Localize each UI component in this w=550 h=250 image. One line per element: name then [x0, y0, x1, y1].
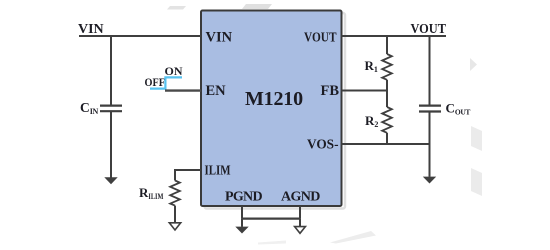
svg-text:EN: EN: [206, 83, 227, 99]
ground (VIN side, filled arrow): [104, 177, 117, 184]
wire AGND to ground: [299, 219, 301, 227]
resistor RILIM: [170, 181, 180, 206]
wire AGND stub: [299, 206, 301, 219]
svg-text:VOS-: VOS-: [307, 138, 339, 153]
watermark fragment right blob 2: [471, 168, 482, 196]
capacitor CIN: [100, 106, 122, 112]
svg-text:FB: FB: [320, 83, 339, 99]
svg-text:M1210: M1210: [245, 88, 303, 110]
svg-text:VIN: VIN: [78, 22, 104, 37]
wire PGND to ground: [241, 219, 243, 227]
wire R2 bottom to VOS- wire: [386, 133, 388, 144]
wire RILIM to ground: [174, 206, 176, 223]
wire VOS- node to ground: [429, 144, 431, 177]
wire EN to chip: [165, 89, 201, 91]
wire VOS- from chip to ground branch: [342, 143, 430, 145]
wire R1 bottom to FB node: [386, 80, 388, 91]
svg-text:OFF: OFF: [145, 77, 166, 89]
ground (output side, filled arrow): [423, 177, 436, 184]
wire COUT to VOS- wire: [429, 112, 431, 144]
watermark fragment bottom wedge: [330, 231, 376, 244]
watermark fragment right blob 1: [471, 126, 482, 151]
svg-text:VOUT: VOUT: [304, 31, 337, 46]
ground (PGND, filled arrow): [235, 227, 248, 234]
wire FB node down to R2: [386, 91, 388, 108]
wire VIN input to chip: [79, 35, 201, 37]
enable step waveform (blue): [150, 77, 182, 88]
watermark fragment top-center dash: [242, 4, 272, 9]
chip U1 M1210 drop shadow: [205, 13, 346, 209]
wire VOUT from chip to output node: [342, 35, 447, 37]
watermark fragment top-left dash: [167, 6, 186, 10]
wire VOUT node down to COUT: [429, 36, 431, 105]
ground (RILIM, hollow arrow): [169, 223, 180, 230]
ground (AGND, hollow arrow): [295, 227, 306, 234]
watermark fragment right small triangle: [470, 58, 477, 71]
capacitor COUT: [419, 106, 441, 112]
resistor R1: [382, 54, 392, 80]
svg-text:ILIM: ILIM: [205, 164, 231, 179]
svg-text:VOUT: VOUT: [411, 22, 447, 37]
wire PGND-AGND bar: [242, 218, 300, 220]
svg-text:PGND: PGND: [225, 190, 262, 205]
svg-text:VIN: VIN: [206, 30, 233, 46]
svg-text:ON: ON: [165, 64, 183, 78]
wire PGND stub: [241, 206, 243, 219]
wire ILIM from chip: [175, 170, 201, 181]
chip U1 M1210 body: [201, 11, 342, 207]
svg-text:AGND: AGND: [281, 190, 320, 205]
wire FB from chip: [342, 90, 388, 92]
wire VOUT down to R1: [386, 36, 388, 54]
wire CIN to ground: [110, 112, 112, 178]
resistor R2: [382, 107, 392, 133]
watermark fragment bottom faint line: [258, 241, 286, 245]
wire VIN down to CIN: [110, 36, 112, 105]
